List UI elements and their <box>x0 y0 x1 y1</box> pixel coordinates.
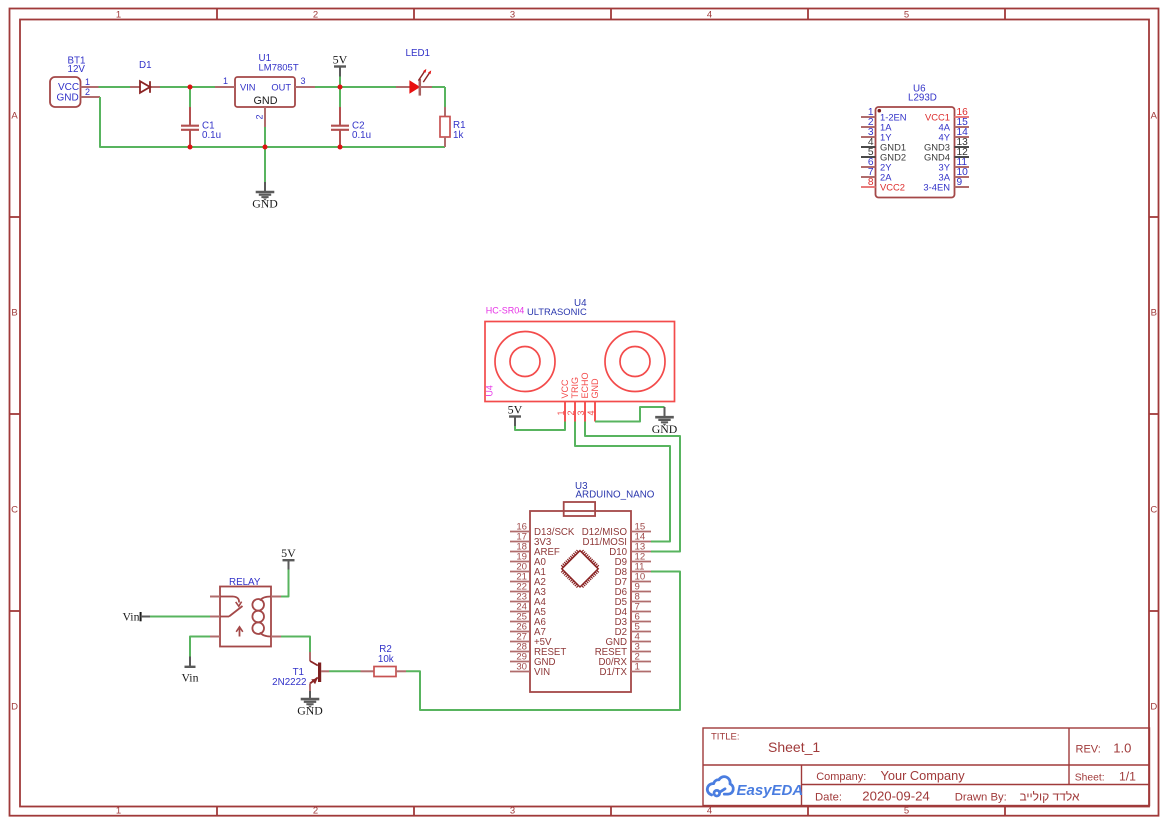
svg-text:LED1: LED1 <box>406 48 431 59</box>
svg-text:2020-09-24: 2020-09-24 <box>862 788 929 803</box>
svg-text:5V: 5V <box>508 403 523 417</box>
svg-text:5V: 5V <box>333 53 348 67</box>
svg-text:HC-SR04: HC-SR04 <box>486 306 525 316</box>
svg-text:GND: GND <box>590 378 600 399</box>
svg-text:Date:: Date: <box>815 791 842 803</box>
svg-text:5V: 5V <box>281 546 296 560</box>
svg-text:C: C <box>1150 505 1157 516</box>
svg-text:8: 8 <box>868 177 874 188</box>
svg-text:3: 3 <box>576 410 586 415</box>
svg-text:1: 1 <box>116 10 121 21</box>
svg-text:GND: GND <box>297 704 323 718</box>
svg-text:Drawn By:: Drawn By: <box>955 791 1007 803</box>
svg-text:B: B <box>11 308 17 319</box>
svg-text:U4: U4 <box>485 385 495 396</box>
svg-text:1/1: 1/1 <box>1119 769 1136 783</box>
svg-text:Vin: Vin <box>123 609 140 623</box>
svg-text:TRIG: TRIG <box>570 377 580 399</box>
svg-text:D: D <box>1150 702 1157 713</box>
svg-text:Vin: Vin <box>182 671 199 685</box>
svg-text:1.0: 1.0 <box>1113 741 1131 756</box>
svg-text:VCC2: VCC2 <box>880 181 905 192</box>
svg-text:VCC: VCC <box>560 379 570 399</box>
svg-text:LM7805T: LM7805T <box>259 63 299 74</box>
svg-text:2: 2 <box>255 114 265 119</box>
svg-text:2: 2 <box>313 805 318 816</box>
svg-text:OUT: OUT <box>271 82 291 92</box>
svg-text:4: 4 <box>586 410 596 415</box>
svg-text:ARDUINO_NANO: ARDUINO_NANO <box>576 490 655 501</box>
svg-text:9: 9 <box>957 177 963 188</box>
svg-text:0.1u: 0.1u <box>202 130 221 141</box>
svg-text:5: 5 <box>904 805 909 816</box>
svg-text:3: 3 <box>300 76 305 86</box>
svg-text:Your Company: Your Company <box>881 768 966 783</box>
svg-text:10k: 10k <box>378 654 394 665</box>
svg-text:1: 1 <box>223 76 228 86</box>
svg-text:ECHO: ECHO <box>580 372 590 398</box>
svg-text:GND: GND <box>254 95 278 107</box>
svg-text:2: 2 <box>85 87 90 97</box>
svg-text:B: B <box>1151 308 1157 319</box>
svg-text:2: 2 <box>313 10 318 21</box>
svg-text:1: 1 <box>116 805 121 816</box>
svg-text:Company:: Company: <box>816 771 866 783</box>
svg-text:A: A <box>11 111 18 122</box>
svg-text:2: 2 <box>566 410 576 415</box>
svg-text:ULTRASONIC: ULTRASONIC <box>527 306 587 317</box>
svg-text:3: 3 <box>510 805 515 816</box>
svg-text:0.1u: 0.1u <box>352 130 371 141</box>
svg-text:D: D <box>11 702 18 713</box>
svg-text:D1: D1 <box>139 60 152 71</box>
svg-text:Sheet_1: Sheet_1 <box>768 739 820 755</box>
svg-text:GND: GND <box>57 92 79 103</box>
svg-text:1: 1 <box>556 410 566 415</box>
svg-text:30: 30 <box>516 662 527 673</box>
svg-text:1k: 1k <box>453 130 463 141</box>
svg-text:4: 4 <box>707 10 712 21</box>
svg-text:GND: GND <box>252 197 278 211</box>
svg-text:3-4EN: 3-4EN <box>923 181 950 192</box>
svg-text:אלדד קולייב: אלדד קולייב <box>1019 789 1079 803</box>
svg-text:1: 1 <box>635 662 640 673</box>
svg-text:5: 5 <box>904 10 909 21</box>
svg-text:TITLE:: TITLE: <box>711 731 740 742</box>
svg-text:12V: 12V <box>68 64 86 75</box>
svg-text:3: 3 <box>510 10 515 21</box>
svg-text:1: 1 <box>85 77 90 87</box>
svg-text:L293D: L293D <box>908 93 937 104</box>
svg-text:4: 4 <box>707 805 712 816</box>
svg-text:D1/TX: D1/TX <box>600 667 628 678</box>
svg-text:C: C <box>11 505 18 516</box>
svg-text:VIN: VIN <box>240 82 256 92</box>
svg-text:GND: GND <box>652 422 678 436</box>
svg-text:2N2222: 2N2222 <box>272 677 306 688</box>
svg-text:EasyEDA: EasyEDA <box>737 782 804 799</box>
svg-text:VIN: VIN <box>534 667 550 678</box>
svg-text:REV:: REV: <box>1076 744 1101 756</box>
svg-text:A: A <box>1151 111 1158 122</box>
svg-text:Sheet:: Sheet: <box>1075 772 1105 783</box>
